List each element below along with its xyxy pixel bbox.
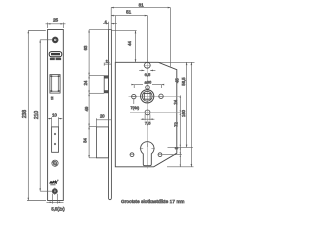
cylinder fixing hole (hatched) — [52, 160, 58, 166]
cylinder side hole right — [158, 153, 163, 157]
svg-text:56,5: 56,5 — [181, 77, 186, 86]
svg-text:±36: ±36 — [145, 80, 152, 85]
svg-text:49: 49 — [84, 106, 89, 111]
svg-text:25: 25 — [53, 18, 59, 23]
center line vertical through case — [146, 60, 148, 169]
dim line 63/24/49/34 — [88, 30, 90, 158]
svg-text:44: 44 — [127, 41, 132, 46]
svg-text:81: 81 — [139, 3, 145, 8]
faceplate plate outline — [48, 30, 64, 201]
dim 81 (top) — [111, 2, 171, 67]
latch bolt side view — [104, 76, 108, 93]
svg-text:7,5: 7,5 — [145, 121, 151, 126]
svg-text:12: 12 — [50, 96, 54, 100]
svg-text:Grootste slotkastdikte 17 mm: Grootste slotkastdikte 17 mm — [121, 199, 185, 204]
deadbolt extension lines — [89, 125, 96, 127]
svg-text:45: 45 — [174, 78, 179, 83]
hole 7,5 below follower — [130, 110, 180, 126]
lock case outline with chamfered corners — [115, 62, 177, 167]
dim column left of side view — [83, 30, 109, 158]
svg-text:24: 24 — [83, 80, 88, 85]
NEMEF logo plate — [49, 52, 62, 61]
extension case bottom — [167, 166, 194, 168]
svg-text:20: 20 — [100, 114, 105, 119]
top screw hole — [52, 37, 58, 43]
hole above follower — [146, 86, 150, 90]
dim 4 (faceplate thickness) — [103, 20, 117, 30]
deadbolt rivets — [54, 133, 56, 145]
latch opening — [50, 75, 60, 94]
svg-text:210: 210 — [34, 111, 40, 120]
svg-text:8: 8 — [174, 146, 179, 149]
svg-text:51: 51 — [126, 9, 132, 14]
deadbolt opening — [52, 127, 59, 152]
svg-text:160: 160 — [181, 109, 186, 117]
svg-text:10: 10 — [52, 113, 57, 118]
dim ±36 (handle holes spacing) — [131, 80, 164, 88]
dim line 24 / 72 / 8 — [173, 95, 181, 166]
dim 20 (deadbolt throw) — [96, 114, 111, 127]
latch extension lines — [89, 75, 104, 77]
dim 238 (overall length, far left) — [22, 31, 46, 201]
svg-text:72: 72 — [173, 122, 178, 127]
faceplate strip side view — [109, 30, 112, 200]
handle fixing hole right — [158, 94, 164, 98]
dim 25 (plate width) — [46, 18, 66, 28]
hole 6,5 top — [139, 62, 155, 77]
handle fixing hole left — [131, 94, 137, 104]
svg-text:238: 238 — [22, 110, 28, 119]
svg-text:34: 34 — [83, 138, 88, 143]
svg-text:6,5: 6,5 — [145, 72, 151, 77]
extension from plate top — [89, 29, 108, 31]
SKG certification mark — [49, 180, 59, 186]
latch bolt — [51, 75, 60, 92]
dim line 56,5 and 160 — [181, 62, 192, 167]
extension cylinder center — [168, 146, 193, 148]
dim 51 (backset) — [111, 9, 148, 62]
dim 210 (screw hole centers) — [34, 40, 58, 191]
svg-text:7(4x): 7(4x) — [130, 106, 139, 110]
dim 11 (latch protrusion) — [104, 59, 111, 65]
euro profile cylinder — [140, 142, 155, 166]
bottom screw hole — [52, 188, 57, 195]
svg-text:63: 63 — [83, 45, 88, 50]
svg-text:11: 11 — [106, 59, 110, 63]
dim 44 (plate top to case top) — [112, 31, 137, 62]
dim line 45 — [174, 62, 187, 147]
svg-text:5,5(2x): 5,5(2x) — [51, 207, 65, 212]
cylinder side hole left — [130, 153, 135, 157]
svg-text:24: 24 — [173, 99, 178, 104]
follower (spindle hub) — [141, 90, 154, 103]
extension case top right — [158, 61, 194, 63]
extension side hole — [163, 154, 182, 156]
deadbolt side view — [96, 127, 108, 158]
center line horizontal through follower — [129, 95, 181, 97]
dim 5,5(2x) — [47, 194, 66, 212]
dim 10 (deadbolt slot width) — [48, 113, 63, 127]
svg-text:4: 4 — [105, 20, 107, 24]
